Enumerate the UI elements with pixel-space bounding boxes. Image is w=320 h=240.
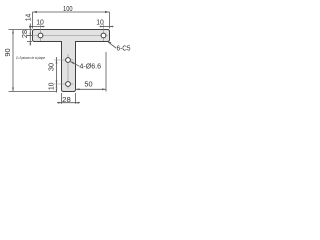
dimension 30 stem holes [56,57,58,93]
dimension 10 left [29,26,45,28]
svg-text:28: 28 [62,95,71,104]
leader 6-C5 [108,42,116,48]
svg-text:28: 28 [20,30,29,38]
centerline bar holes [27,35,108,37]
leader 4-&#216;6.6 [71,62,80,67]
hole H3 [66,58,71,63]
hole H4 [66,82,71,87]
dimension 28 bottom [57,93,80,104]
center cross hole H2 [103,24,105,41]
dimension 50 [76,52,107,92]
center cross hole H1 [40,24,42,41]
svg-text:14: 14 [23,14,32,22]
centerline stem holes [67,54,69,89]
dimension 10 right [100,26,114,28]
svg-text:30: 30 [47,63,56,71]
svg-text:50: 50 [84,80,92,89]
svg-text:10: 10 [47,83,56,91]
svg-text:4-Ø6.6: 4-Ø6.6 [80,63,102,70]
dimension 90 overall [9,30,58,92]
svg-text:10: 10 [36,17,44,26]
T-plate body [33,30,110,92]
svg-text:6-C5: 6-C5 [117,46,131,53]
svg-text:100: 100 [63,4,73,13]
hole H2 [101,33,106,38]
center cross hole H4 [54,83,74,85]
hole H1 [38,33,43,38]
dimension 100 [33,12,110,29]
dimension 14 left vertical [9,24,33,46]
center cross hole H3 [54,59,74,61]
svg-text:10: 10 [96,17,104,26]
svg-text:90: 90 [3,48,12,56]
svg-text:Z= Epaisseur de la plaque: Z= Epaisseur de la plaque [15,56,45,60]
dimension 10 stem bottom [56,84,58,87]
